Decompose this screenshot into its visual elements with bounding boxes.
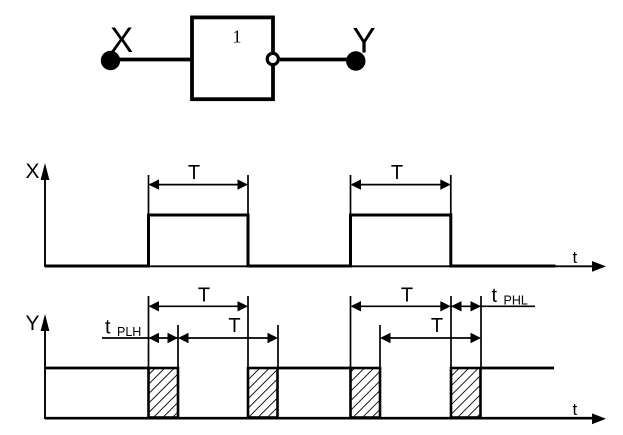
X vertical axis arrowhead [41,163,50,180]
hatched transition box 2 [248,368,278,418]
dimension arrow T row B left [180,337,277,339]
X vertical axis [44,170,46,267]
waveform X trace [45,215,556,266]
svg-text:X: X [26,160,40,183]
extension line x178 [177,325,179,368]
svg-text:t: t [492,285,498,307]
hatched transition box 1 [149,368,179,418]
waveform Y high segment 2 [278,367,351,370]
svg-text:Y: Y [26,312,40,335]
svg-text:Y: Y [352,22,375,61]
dimension t_PHL connector line [451,305,481,307]
X time axis thin line [45,265,594,267]
svg-text:T: T [401,285,413,307]
dimension arrow T row B right [382,337,480,339]
svg-text:T: T [228,315,240,337]
Y time axis arrowhead [592,413,606,424]
svg-text:1: 1 [233,27,242,47]
svg-text:PHL: PHL [504,294,528,308]
extension line X pulse1 right [247,175,249,215]
Y vertical axis [44,321,46,419]
hatched transition box 4 [451,368,481,418]
extension line x350 [350,296,352,368]
node Y terminal [346,51,365,70]
svg-text:T: T [391,162,403,184]
svg-text:t: t [573,400,578,419]
svg-text:T: T [188,162,200,184]
Y time axis line [45,417,594,420]
extension line x148 [148,296,150,368]
svg-text:t: t [573,248,578,267]
svg-text:X: X [110,21,133,60]
extension line X pulse2 right [450,175,452,215]
dimension t_PLH connector line [149,337,179,339]
dimension arrow T row A left [150,305,247,307]
leader line t_PHL [481,305,535,307]
Y vertical axis arrowhead [41,314,50,331]
leader line t_PLH [102,337,149,339]
waveform Y high segment 1 [45,367,149,370]
waveform Y high segment 3 [481,367,554,370]
wire gate to Y [280,58,356,62]
extension line x481 [480,296,482,368]
dimension arrow T pulse2 [352,184,449,186]
dimension arrow T row A right [352,305,449,307]
X time axis arrowhead [592,261,606,272]
extension line x451 [450,296,452,368]
svg-text:T: T [431,315,443,337]
hatched transition box 3 [351,368,381,418]
output inversion bubble [267,53,278,64]
dimension t_PLH arrows [149,333,160,343]
svg-text:PLH: PLH [117,325,141,339]
dimension t_PHL arrows [451,301,462,311]
dimension arrow T pulse1 [150,184,247,186]
inverter gate U1 body [192,17,273,99]
svg-text:t: t [105,317,111,339]
wire input X to gate [110,58,192,62]
extension line X pulse1 left [148,175,150,215]
extension line x248 [247,296,249,368]
extension line X pulse2 left [350,175,352,215]
svg-text:T: T [198,285,210,307]
node X terminal [101,51,120,70]
extension line x380 [379,325,381,368]
extension line x278 [277,325,279,368]
